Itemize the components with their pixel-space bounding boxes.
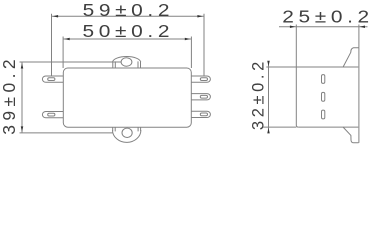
dim 25 left extension line (body left face): [295, 25, 297, 68]
svg-text:39±0.2: 39±0.2: [0, 55, 19, 135]
left terminal T2: [42, 112, 63, 118]
dim 39 bottom extension line: [20, 132, 113, 134]
side view terminal slot 3: [322, 110, 325, 119]
dim 59 left extension line: [51, 14, 53, 76]
dim 25 right extension line (flange face top): [358, 25, 360, 48]
dim 25 left arrowhead (outside): [290, 26, 295, 29]
filter body outline (front view): [63, 68, 191, 127]
svg-text:32±0.2: 32±0.2: [249, 58, 267, 130]
side view body left face: [296, 67, 298, 127]
dim 32 line: [268, 62, 270, 133]
svg-text:50±0.2: 50±0.2: [83, 21, 175, 41]
side view flange top lip: [343, 48, 359, 67]
bottom tab hole: [122, 128, 132, 137]
side view terminal slot 2: [322, 92, 325, 101]
right terminal R1: [191, 76, 210, 82]
top tab right foot: [138, 61, 141, 68]
top mounting tab arch: [112, 56, 140, 62]
dim 50 left arrowhead: [64, 38, 69, 41]
dim 39 bottom arrowhead: [21, 126, 24, 131]
dim 39 top arrowhead: [21, 63, 24, 68]
right terminal R1 hole: [200, 78, 207, 81]
bottom mounting tab arch: [113, 130, 141, 142]
bottom tab right foot: [138, 127, 141, 131]
dim 25 right arrowhead (outside): [360, 26, 365, 29]
right terminal R3: [191, 111, 210, 117]
right terminal R3 hole: [200, 113, 207, 116]
side view body bottom edge: [298, 126, 358, 128]
svg-text:25±0.2: 25±0.2: [282, 7, 374, 27]
dim 50 right arrowhead: [185, 38, 190, 41]
left terminal T2 hole: [48, 113, 55, 116]
dim 25 line: [279, 26, 368, 28]
side view flange right face: [358, 48, 360, 143]
side view flange bottom lip: [343, 127, 359, 143]
top tab left foot: [113, 61, 116, 68]
bottom tab left foot: [113, 127, 116, 131]
dim 32 top extension line: [266, 66, 296, 68]
dim 59 left arrowhead: [53, 15, 58, 18]
dim 59 line: [52, 15, 205, 17]
dim 50 line: [63, 38, 191, 40]
dim 32 top arrowhead (outside): [267, 61, 270, 66]
dim 59 right extension line: [203, 14, 205, 76]
left terminal T1: [42, 76, 63, 82]
top tab hole: [121, 58, 132, 66]
dim 32 bottom arrowhead (outside): [267, 128, 270, 133]
side view body top edge: [296, 66, 358, 68]
dim 50 left extension line: [62, 37, 64, 69]
side view terminal slot 1: [322, 75, 325, 84]
left terminal T1 hole: [48, 78, 55, 81]
dim 32 bottom extension line: [262, 126, 296, 128]
dim 59 right arrowhead: [197, 15, 202, 18]
right terminal R2 hole: [200, 95, 207, 98]
dim 50 right extension line: [190, 37, 192, 69]
dim 39 line: [21, 62, 23, 133]
dim 39 top extension line: [20, 61, 122, 63]
right terminal R2: [191, 94, 210, 100]
svg-text:59±0.2: 59±0.2: [83, 0, 175, 20]
